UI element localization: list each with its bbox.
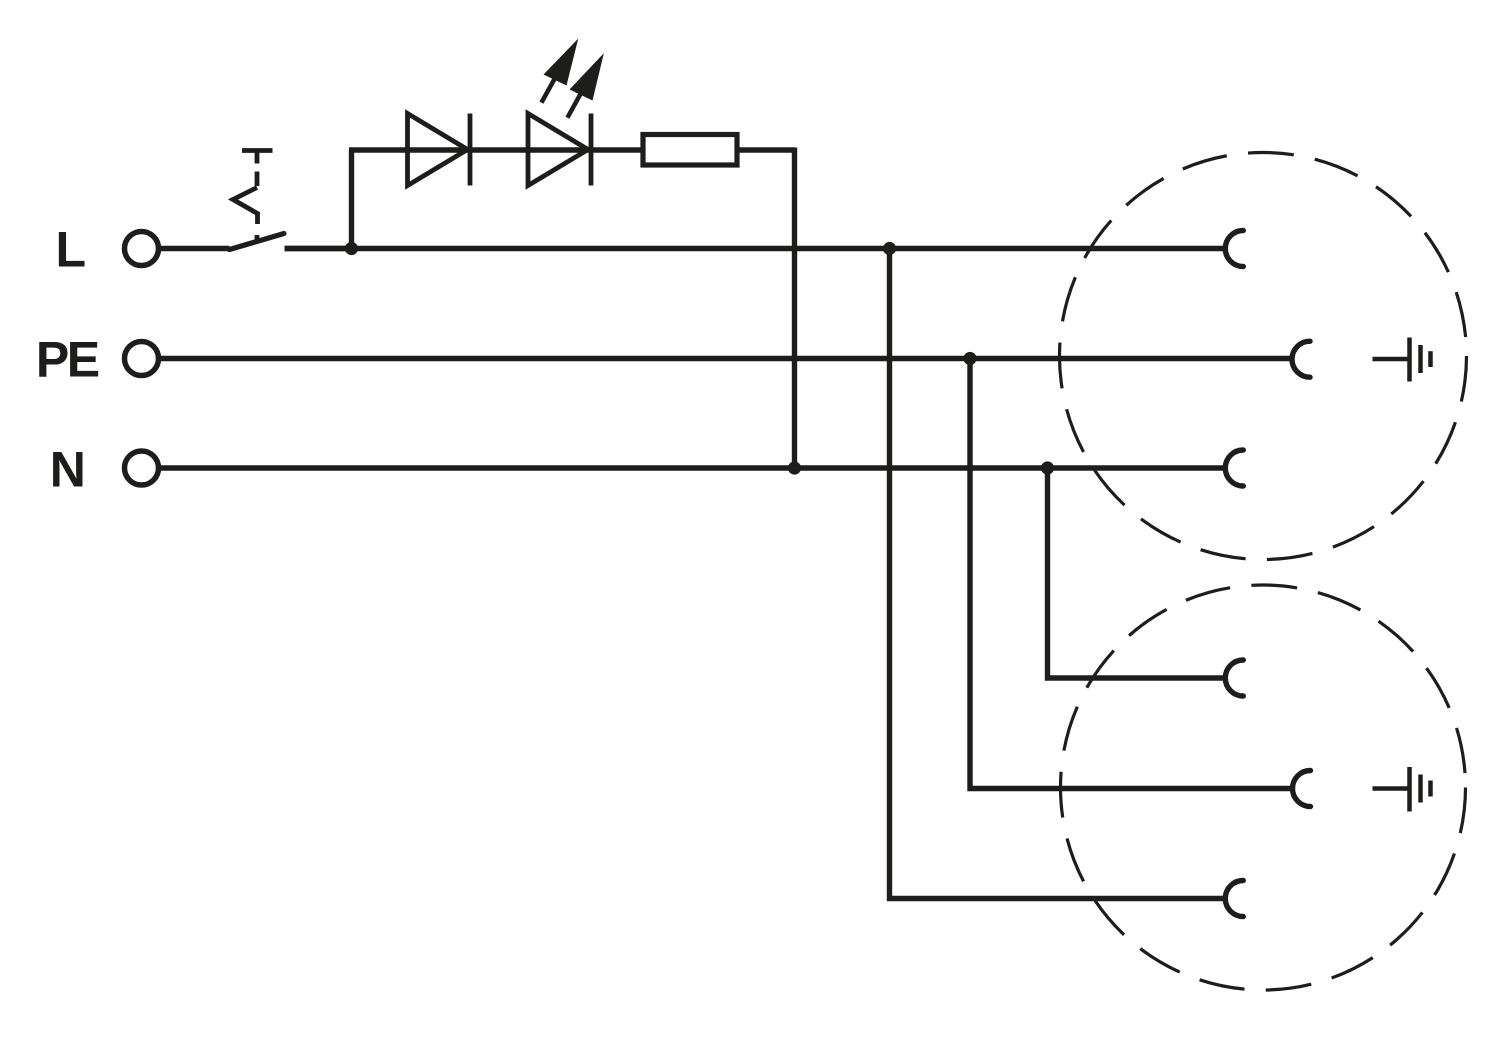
LED arrow 1 bbox=[541, 39, 578, 103]
wire PE bus bbox=[160, 356, 1292, 361]
node B junction on L bbox=[883, 242, 896, 255]
socket 2 contact PE bbox=[1293, 771, 1311, 807]
svg-text:PE: PE bbox=[36, 332, 99, 388]
switch actuator dashed stem bbox=[255, 151, 260, 187]
socket 2 outline (dashed circle) bbox=[1061, 585, 1466, 990]
resistor R1 bbox=[643, 135, 737, 166]
terminal N bbox=[125, 451, 159, 485]
svg-text:L: L bbox=[56, 222, 87, 278]
node C junction on PE bbox=[963, 352, 976, 365]
socket 1 contact L bbox=[1225, 231, 1243, 267]
wire L terminal to switch bbox=[160, 246, 230, 251]
socket 1 outline (dashed circle) bbox=[1060, 153, 1467, 560]
earth symbol socket 1 bbox=[1373, 338, 1431, 382]
socket 2 contact N bbox=[1225, 660, 1243, 696]
switch actuator T-bar bbox=[242, 148, 273, 153]
diode D1 bbox=[408, 114, 468, 186]
node on N line (resistor riser) bbox=[788, 461, 801, 474]
node A junction dot bbox=[345, 242, 358, 255]
terminal PE bbox=[125, 342, 159, 376]
node D junction on N bbox=[1041, 461, 1054, 474]
wire N bus bbox=[160, 465, 1224, 470]
wire right riser down to N bbox=[792, 148, 797, 469]
wire resistor to right riser bbox=[737, 147, 795, 152]
socket 1 contact PE bbox=[1292, 341, 1310, 377]
wire L bus bbox=[285, 246, 1224, 251]
socket 1 contact N bbox=[1225, 450, 1243, 486]
wire N dropper to socket 2 bbox=[1048, 468, 1225, 678]
wire branch left bbox=[349, 147, 641, 152]
svg-text:N: N bbox=[50, 442, 86, 498]
LED D2 cathode bar bbox=[589, 114, 594, 186]
LED arrow 2 bbox=[567, 53, 604, 118]
wire riser to LED branch bbox=[349, 150, 354, 249]
wire L dropper to socket 2 bbox=[890, 249, 1225, 899]
wire PE dropper to socket 2 bbox=[970, 359, 1292, 789]
diode D1 cathode bar bbox=[468, 114, 473, 186]
LED D2 bbox=[528, 114, 588, 186]
switch spring chevron bbox=[233, 188, 258, 225]
terminal L bbox=[125, 232, 159, 266]
switch actuator lower dash bbox=[255, 235, 260, 241]
switch S1 blade bbox=[230, 234, 285, 250]
earth symbol socket 2 bbox=[1373, 767, 1431, 812]
wire switch to junction A bbox=[285, 246, 352, 251]
socket 2 contact L bbox=[1225, 881, 1243, 917]
